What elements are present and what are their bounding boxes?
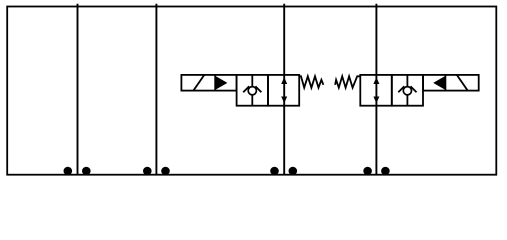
valve V1 position box 1 (check valve cell) <box>237 75 268 106</box>
wire: manifold line 4 <box>375 4 377 175</box>
junction dot C2 <box>289 167 298 176</box>
wire: manifold line 3 <box>283 4 285 175</box>
valve V2 check valve ball <box>403 87 411 95</box>
valve V2 solenoid/pilot actuator box <box>423 75 479 91</box>
junction dot D2 <box>381 167 390 176</box>
valve V2 position box 2 (check valve cell) <box>392 75 423 106</box>
valve V1 check valve ball <box>248 87 256 95</box>
valve V1 check valve seat right <box>255 86 261 92</box>
junction dot A2 <box>82 167 91 176</box>
valve V2 flow arrow down <box>373 97 379 104</box>
junction dot C1 <box>270 167 279 176</box>
valve V2 return spring <box>335 76 361 87</box>
valve V2 check valve stem wire <box>406 75 408 106</box>
junction dot A1 <box>64 167 73 176</box>
wire: manifold line 1 <box>77 4 79 175</box>
valve V1 flow arrow down <box>281 97 287 104</box>
junction dot B1 <box>143 167 152 176</box>
valve V1 position box 2 (through-flow cell) <box>268 75 299 106</box>
valve V1 check valve stem wire <box>251 75 253 106</box>
junction dot B2 <box>161 167 170 176</box>
wire: manifold line 2 <box>155 4 157 175</box>
valve V2 position box 1 (through-flow cell) <box>360 75 392 106</box>
valve V2 check valve seat left <box>398 86 404 92</box>
valve V2 flow arrow up <box>373 77 379 84</box>
valve V1 solenoid/pilot actuator box <box>181 75 236 91</box>
valve V1 pilot triangle <box>215 76 227 90</box>
valve V1 return spring <box>299 76 323 87</box>
valve V1 flow arrow up <box>281 77 287 84</box>
valve V1 check valve seat left <box>243 86 249 92</box>
valve V1 solenoid coil slash <box>194 75 205 90</box>
junction dot D1 <box>363 167 372 176</box>
valve V2 check valve seat right <box>411 86 417 92</box>
valve V2 solenoid coil backslash <box>457 75 468 90</box>
valve V2 pilot triangle <box>433 76 445 90</box>
